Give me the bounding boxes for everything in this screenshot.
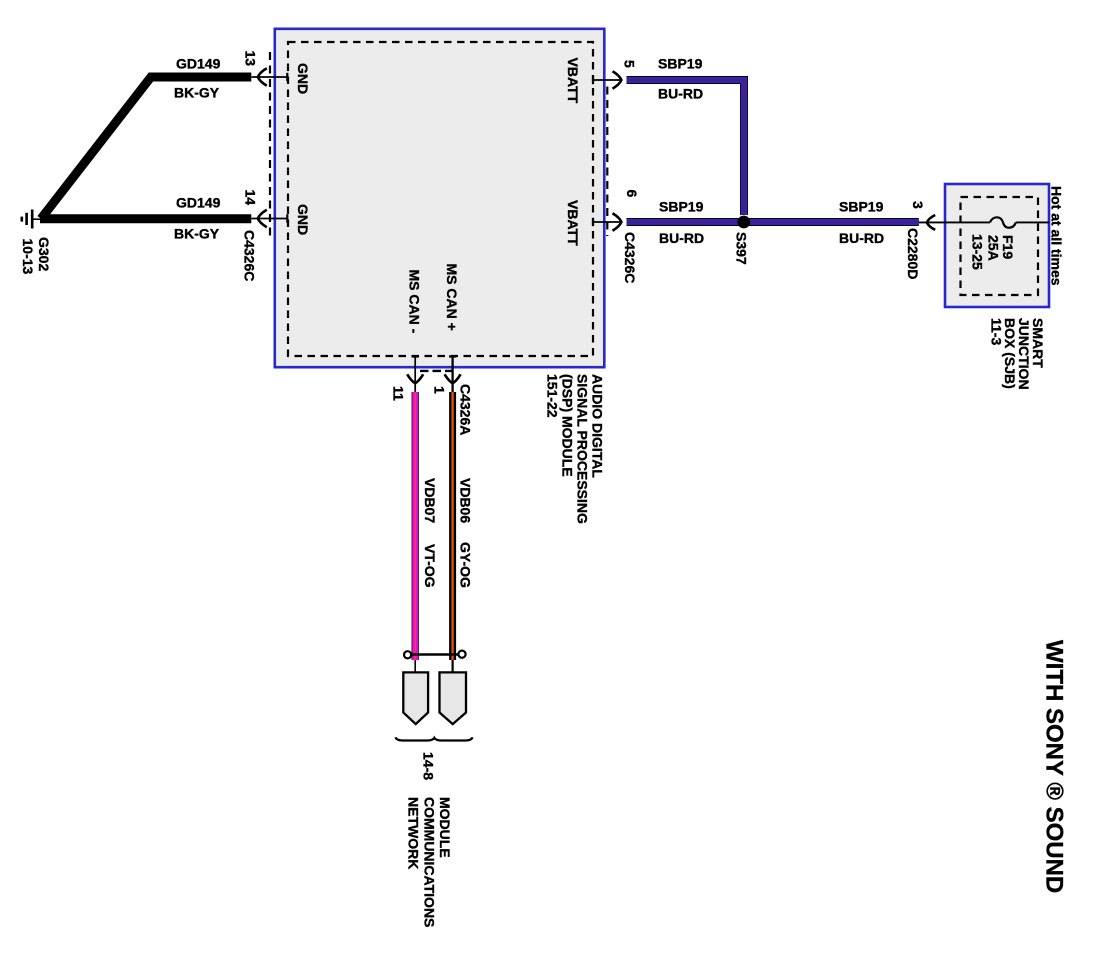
svg-text:10-13: 10-13 <box>20 239 36 275</box>
splice S397 label <box>734 232 750 265</box>
svg-text:VDB06: VDB06 <box>458 478 474 523</box>
svg-text:G302: G302 <box>36 237 52 271</box>
svg-text:5: 5 <box>622 60 638 68</box>
connector C4326C left dashed bracket <box>269 52 271 236</box>
svg-text:11: 11 <box>391 386 407 401</box>
svg-text:MS CAN -: MS CAN - <box>407 270 423 334</box>
svg-text:14-8: 14-8 <box>421 752 437 780</box>
svg-text:C4326A: C4326A <box>458 384 474 435</box>
pin 11 number <box>391 386 407 401</box>
wire thick black GND pin13 + diagonal <box>41 77 251 219</box>
pin 6 line + tick <box>593 218 621 226</box>
svg-text:11-3: 11-3 <box>989 318 1005 345</box>
svg-text:25A: 25A <box>986 235 1002 261</box>
label SBP19 BU-RD (pin 5 wire) <box>658 56 703 102</box>
off-page connector left (pentagon) <box>403 672 428 724</box>
pin 5 line + tick <box>593 76 621 84</box>
pin 14 line + tick <box>252 214 288 222</box>
svg-text:GND: GND <box>295 63 311 94</box>
pin 3 number <box>910 201 926 209</box>
connector C2280D label <box>905 228 921 279</box>
VBATT label pin 5 <box>565 58 581 104</box>
svg-text:BU-RD: BU-RD <box>658 86 703 102</box>
svg-text:MODULE: MODULE <box>437 797 453 858</box>
svg-text:SBP19: SBP19 <box>839 199 884 215</box>
label MODULE COMMUNICATIONS NETWORK <box>406 797 454 927</box>
off-page connector right (pentagon) <box>440 672 467 724</box>
DSP module U1 box <box>275 29 605 367</box>
wire SBP19 BU-RD pin 5 to junction <box>627 80 745 215</box>
pin 1 line + tick <box>449 357 456 393</box>
MS CAN + label pin 1 <box>444 264 460 331</box>
ground G302 <box>22 210 41 229</box>
module name AUDIO DIGITAL SIGNAL PROCESSING (DSP) MODULE 151-22 <box>545 374 606 524</box>
svg-text:GND: GND <box>295 204 311 235</box>
wire stub to right off-page connector <box>452 660 454 672</box>
svg-text:C4326C: C4326C <box>622 232 638 283</box>
svg-text:VBATT: VBATT <box>565 58 581 104</box>
pin 14 number <box>243 190 259 206</box>
svg-text:SBP19: SBP19 <box>658 56 703 72</box>
svg-text:3: 3 <box>910 201 926 209</box>
svg-text:S397: S397 <box>734 232 750 265</box>
svg-text:COMMUNICATIONS: COMMUNICATIONS <box>422 797 438 927</box>
pin 14 connector arrow <box>258 210 267 227</box>
svg-text:BU-RD: BU-RD <box>839 230 884 246</box>
pin 5 connector arrow <box>613 71 622 88</box>
label SBP19 BU-RD (junction to SJB wire) <box>839 199 884 247</box>
svg-text:MS CAN +: MS CAN + <box>444 264 460 331</box>
SMART JUNCTION BOX label <box>989 318 1047 390</box>
inline connector bar + rings <box>404 651 466 659</box>
pin 5 number <box>622 60 638 68</box>
label SBP19 BU-RD (pin 6 wire) <box>659 199 704 247</box>
svg-text:GY-OG: GY-OG <box>458 542 474 588</box>
svg-text:BU-RD: BU-RD <box>659 230 704 246</box>
GND label pin 14 <box>295 204 311 235</box>
svg-text:13-25: 13-25 <box>970 234 986 270</box>
svg-text:13: 13 <box>243 51 259 67</box>
connector C4326A label <box>458 384 474 435</box>
ground label G302 10-13 <box>20 237 52 275</box>
svg-text:1: 1 <box>432 386 448 394</box>
svg-text:AUDIO DIGITAL: AUDIO DIGITAL <box>590 374 606 478</box>
svg-text:151-22: 151-22 <box>545 374 561 418</box>
label VDB06 GY-OG <box>458 478 474 588</box>
svg-text:Hot at all times: Hot at all times <box>1049 186 1065 286</box>
wire thick black GND pin14 <box>40 214 251 223</box>
svg-text:SIGNAL PROCESSING: SIGNAL PROCESSING <box>575 374 591 524</box>
pin 13 number <box>243 51 259 67</box>
svg-text:VBATT: VBATT <box>565 200 581 246</box>
svg-text:SBP19: SBP19 <box>659 199 704 215</box>
connector C4326A dashed bracket <box>420 370 454 372</box>
pin 11 line + tick <box>412 357 420 393</box>
svg-text:14: 14 <box>243 190 259 206</box>
label GD149 BK-GY (pin 14 wire) <box>174 195 221 242</box>
wire SBP19 BU-RD pin 6 to junction <box>627 218 745 226</box>
pin 3 connector arrow C2280D <box>927 215 935 230</box>
svg-text:BK-GY: BK-GY <box>174 85 220 101</box>
svg-text:GD149: GD149 <box>176 56 221 72</box>
wire VDB07 VT-OG (pin 11, magenta) <box>412 392 419 660</box>
splice S397 junction dot <box>737 216 750 229</box>
GND label pin 13 <box>295 63 311 94</box>
pin 1 connector arrow <box>445 374 461 383</box>
svg-text:(DSP) MODULE: (DSP) MODULE <box>560 374 576 477</box>
Hot at all times label <box>1049 186 1065 286</box>
connector C4326C left label <box>242 230 258 281</box>
svg-text:VDB07: VDB07 <box>422 478 438 523</box>
pin 6 connector arrow <box>613 213 622 230</box>
fuse F19 25A 13-25 label <box>970 234 1017 270</box>
pin 1 number <box>432 386 448 394</box>
svg-text:VT-OG: VT-OG <box>422 544 438 588</box>
fuse F19 wire + element <box>919 217 1049 227</box>
svg-text:C4326C: C4326C <box>242 230 258 281</box>
svg-text:C2280D: C2280D <box>905 228 921 279</box>
label VDB07 VT-OG <box>422 478 438 588</box>
wire VDB06 GY-OG (pin 1, black/orange) <box>449 392 456 660</box>
title WITH SONY (R) SOUND <box>1041 640 1068 893</box>
svg-text:BK-GY: BK-GY <box>174 226 220 242</box>
label GD149 BK-GY (pin 13 wire) <box>174 56 221 101</box>
svg-text:WITH SONY ® SOUND: WITH SONY ® SOUND <box>1041 640 1068 893</box>
smart junction box SJB <box>945 184 1049 307</box>
pin 13 connector arrow <box>258 68 267 85</box>
svg-text:NETWORK: NETWORK <box>406 797 422 869</box>
wire stub to left off-page connector <box>414 660 416 672</box>
pin 6 number <box>624 190 640 198</box>
VBATT label pin 6 <box>565 200 581 246</box>
svg-text:6: 6 <box>624 190 640 198</box>
connector C4326C right label <box>622 232 638 283</box>
pin 11 connector arrow <box>407 374 423 383</box>
svg-text:GD149: GD149 <box>176 195 221 211</box>
connector C4326C right dashed bracket <box>606 87 608 237</box>
wire SBP19 BU-RD junction to C2280D <box>744 218 919 226</box>
brace under connectors <box>395 737 472 740</box>
pin 13 line + tick <box>252 73 288 81</box>
label 14-8 <box>421 752 437 780</box>
MS CAN - label pin 11 <box>407 270 423 334</box>
